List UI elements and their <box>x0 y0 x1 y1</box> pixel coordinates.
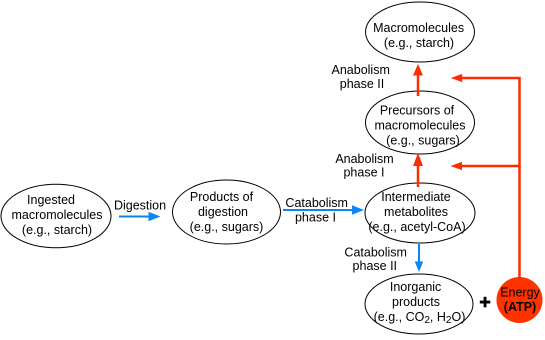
svg-text:products: products <box>392 295 440 309</box>
svg-text:phase II: phase II <box>353 259 397 273</box>
svg-text:macromolecules: macromolecules <box>11 208 102 222</box>
svg-text:(e.g., starch): (e.g., starch) <box>384 36 454 50</box>
svg-text:Anabolism: Anabolism <box>332 63 390 77</box>
svg-text:Anabolism: Anabolism <box>335 152 393 166</box>
svg-text:Products of: Products of <box>190 190 254 204</box>
svg-text:(e.g., sugars): (e.g., sugars) <box>190 220 264 234</box>
svg-text:Inorganic: Inorganic <box>390 280 441 294</box>
svg-text:Catabolism: Catabolism <box>285 196 348 210</box>
svg-text:(ATP): (ATP) <box>504 300 536 314</box>
svg-text:Catabolism: Catabolism <box>344 246 407 260</box>
svg-text:(e.g., starch): (e.g., starch) <box>22 223 92 237</box>
svg-text:Digestion: Digestion <box>114 199 166 213</box>
svg-text:digestion: digestion <box>198 205 248 219</box>
svg-text:(e.g., CO2, H2O): (e.g., CO2, H2O) <box>374 310 466 326</box>
svg-text:metabolites: metabolites <box>384 205 448 219</box>
svg-text:phase I: phase I <box>295 211 336 225</box>
svg-text:Ingested: Ingested <box>27 193 75 207</box>
svg-text:Macromolecules: Macromolecules <box>373 21 464 35</box>
svg-text:Precursors of: Precursors of <box>380 104 455 118</box>
svg-text:phase II: phase II <box>340 77 384 91</box>
svg-text:macromolecules: macromolecules <box>374 119 465 133</box>
svg-text:(e.g., acetyl-CoA): (e.g., acetyl-CoA) <box>368 220 465 234</box>
svg-text:phase I: phase I <box>343 166 384 180</box>
svg-text:(e.g., sugars): (e.g., sugars) <box>386 134 460 148</box>
svg-text:Intermediate: Intermediate <box>381 190 451 204</box>
svg-text:Energy: Energy <box>500 286 540 300</box>
